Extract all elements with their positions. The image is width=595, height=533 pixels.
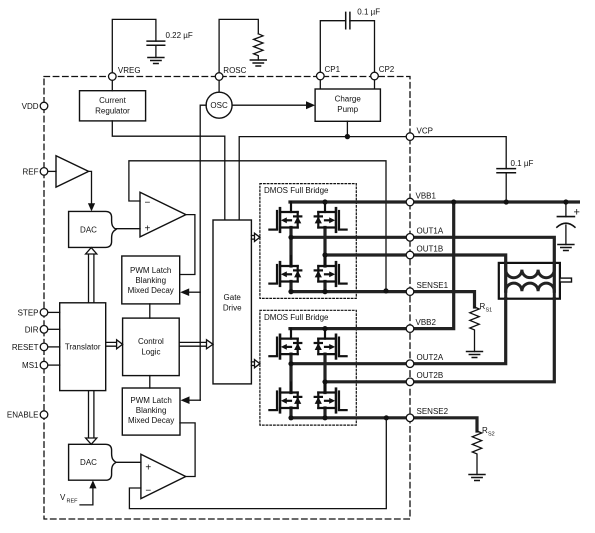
svg-text:DIR: DIR xyxy=(25,325,39,334)
wire buffer to DAC1 xyxy=(89,171,92,204)
svg-text:−: − xyxy=(145,486,151,497)
transistor Q4 (bridge1 low side B) xyxy=(315,256,347,286)
DAC U2 xyxy=(69,444,116,480)
wire control logic to PWM2 xyxy=(149,376,151,388)
svg-text:ENABLE: ENABLE xyxy=(7,411,39,420)
svg-text:OUT1A: OUT1A xyxy=(417,227,444,236)
node OUT1B phase xyxy=(322,252,327,257)
svg-text:VCP: VCP xyxy=(417,126,433,135)
svg-text:0.1 µF: 0.1 µF xyxy=(357,8,380,17)
wire arrow into PWM latch 2 xyxy=(188,399,200,401)
IC boundary dashed box xyxy=(44,77,410,520)
pin SENSE1 xyxy=(406,288,414,296)
wire CP1 into charge pump xyxy=(319,80,321,89)
pin CP1 xyxy=(317,72,325,80)
wire CP1-CP2 pump capacitor xyxy=(320,21,374,72)
svg-text:CP2: CP2 xyxy=(379,65,395,74)
block PWM Latch 2 xyxy=(122,388,180,435)
wire OUT1B xyxy=(325,255,506,291)
node bridge1 sense left xyxy=(288,289,293,294)
svg-text:DAC: DAC xyxy=(80,225,97,234)
svg-text:OUT1B: OUT1B xyxy=(417,244,444,253)
pin CP2 xyxy=(371,72,379,80)
node charge pump junction xyxy=(345,134,350,139)
svg-text:VBB2: VBB2 xyxy=(416,318,437,327)
wire SENSE1 rail xyxy=(291,292,475,307)
DAC U1 xyxy=(69,211,116,247)
pin MS1 xyxy=(48,364,60,366)
wire OSC to charge pump with arrow xyxy=(232,104,307,106)
svg-text:VBB1: VBB1 xyxy=(416,191,437,200)
bus translator to DAC2 xyxy=(89,391,94,438)
pin STEP xyxy=(48,311,60,313)
DMOS full bridge 1 dotted box xyxy=(260,184,356,299)
wire bridge1 left leg xyxy=(289,228,292,292)
inductor winding 2 xyxy=(506,283,555,298)
capacitor 0.22uF xyxy=(147,41,165,45)
node VBB2 tap on VBB1 xyxy=(451,199,456,204)
pin RESET xyxy=(48,346,60,348)
wire DAC1 to comparator1 plus xyxy=(116,228,140,230)
node OUT1A phase xyxy=(288,235,293,240)
node SENSE2 feedback tap xyxy=(384,415,389,420)
wire comparator1 output to PWM1 xyxy=(180,215,195,275)
block Translator xyxy=(60,303,106,391)
transistor Q3 (bridge1 low side A) xyxy=(269,256,301,286)
svg-text:Pump: Pump xyxy=(337,105,358,114)
transistor Q8 (bridge2 low side B) xyxy=(315,383,347,413)
bus arrow translator to control logic xyxy=(106,340,123,349)
svg-text:SENSE1: SENSE1 xyxy=(417,281,449,290)
wire OUT2A xyxy=(291,299,506,364)
node VCP cap on VBB1 xyxy=(504,199,509,204)
node bridge2 sense left xyxy=(288,415,293,420)
svg-text:RESET: RESET xyxy=(12,343,39,352)
wire current regulator to gate drive xyxy=(112,121,225,220)
wire bridge2 left leg xyxy=(289,354,292,418)
svg-text:Translator: Translator xyxy=(65,343,101,352)
svg-text:Blanking: Blanking xyxy=(135,276,166,285)
bus arrow gate drive to bridge 1 xyxy=(251,233,260,241)
pin ROSC xyxy=(215,73,223,81)
node bridge2 drains xyxy=(322,326,327,331)
wire ROSC to resistor xyxy=(219,19,258,72)
block Charge Pump xyxy=(315,89,380,121)
svg-text:DAC: DAC xyxy=(80,458,97,467)
svg-text:Regulator: Regulator xyxy=(95,107,130,116)
svg-text:−: − xyxy=(145,198,151,209)
pin DIR xyxy=(48,328,60,330)
node OUT2B phase xyxy=(322,379,327,384)
inductor winding 1 xyxy=(506,263,555,278)
pin OUT2A xyxy=(406,360,414,368)
node bridge1 sense right xyxy=(322,289,327,294)
wire VBB1 rail xyxy=(290,200,578,203)
oscillator OSC xyxy=(206,92,232,118)
svg-text:DMOS Full Bridge: DMOS Full Bridge xyxy=(264,313,329,322)
bus arrow control logic to gate drive xyxy=(179,340,213,349)
svg-text:Control: Control xyxy=(138,337,164,346)
pin REF xyxy=(40,168,48,176)
svg-text:VDD: VDD xyxy=(22,102,39,111)
wire REF pin to buffer xyxy=(48,170,56,172)
svg-text:STEP: STEP xyxy=(18,308,39,317)
svg-text:+: + xyxy=(145,224,151,235)
op-amp REF buffer xyxy=(56,156,89,187)
pin VREG xyxy=(109,73,117,81)
pin ENABLE xyxy=(40,411,48,419)
motor shaft xyxy=(560,278,572,282)
svg-text:0.22 µF: 0.22 µF xyxy=(166,31,193,40)
svg-text:Charge: Charge xyxy=(335,95,362,104)
pin VDD xyxy=(40,102,48,110)
wire CP2 into charge pump xyxy=(374,80,376,89)
wire charge pump to VCP and gate drive xyxy=(239,121,406,220)
op-amp comparator 2 xyxy=(141,454,186,498)
capacitor bulk electrolytic xyxy=(565,202,567,217)
bus translator to DAC1 xyxy=(89,254,94,303)
wire bridge1 right leg xyxy=(323,228,326,292)
wire OUT1A xyxy=(291,237,554,291)
node bridge2 sense right xyxy=(322,415,327,420)
wire SENSE2 rail xyxy=(291,418,477,431)
svg-text:OUT2B: OUT2B xyxy=(417,371,444,380)
pin OUT2B xyxy=(406,378,414,386)
wire DAC2 to comparator2 plus xyxy=(116,461,141,463)
svg-text:S2: S2 xyxy=(488,432,495,438)
svg-text:Logic: Logic xyxy=(141,348,160,357)
ground (VREG cap) xyxy=(148,58,164,64)
wire VREG to bypass cap xyxy=(112,19,156,72)
wire OUT2B xyxy=(325,299,554,382)
ground (ROSC) xyxy=(250,60,266,66)
transistor Q2 (bridge1 high side B) xyxy=(315,202,347,232)
wire VREF to DAC2 xyxy=(80,487,93,505)
wire ROSC pin to OSC xyxy=(218,81,220,93)
op-amp comparator 1 xyxy=(140,192,186,237)
transistor Q5 (bridge2 high side A) xyxy=(269,329,301,359)
svg-text:VREG: VREG xyxy=(118,66,141,75)
transistor Q6 (bridge2 high side B) xyxy=(315,329,347,359)
pin VBB1 xyxy=(406,198,414,206)
wire bridge2 right leg xyxy=(323,354,326,418)
svg-text:Drive: Drive xyxy=(223,304,242,313)
wire comparator2 output to PWM2 xyxy=(180,423,195,477)
svg-text:Mixed Decay: Mixed Decay xyxy=(128,416,174,425)
node bulk cap on VBB1 xyxy=(563,199,568,204)
svg-text:DMOS Full Bridge: DMOS Full Bridge xyxy=(264,186,329,195)
block Current Regulator xyxy=(80,91,146,121)
svg-text:Gate: Gate xyxy=(224,293,242,302)
svg-text:OUT2A: OUT2A xyxy=(417,353,444,362)
svg-text:Current: Current xyxy=(99,96,126,105)
node OUT2A phase xyxy=(288,361,293,366)
block Control Logic xyxy=(123,318,180,376)
capacitor 0.1uF (charge pump) xyxy=(346,12,350,28)
svg-text:0.1 µF: 0.1 µF xyxy=(511,159,534,168)
pin SENSE2 xyxy=(406,414,414,422)
pin OUT1A xyxy=(406,234,414,242)
ground (RS2) xyxy=(469,475,485,481)
capacitor 0.1uF (VCP) xyxy=(497,169,515,173)
svg-text:S1: S1 xyxy=(486,308,493,314)
bus arrow gate drive to bridge 2 xyxy=(251,360,260,368)
node bridge1 drains xyxy=(322,199,327,204)
pin OUT1B xyxy=(406,251,414,259)
svg-text:REF: REF xyxy=(67,499,79,505)
pin VBB2 xyxy=(406,325,414,333)
svg-text:ROSC: ROSC xyxy=(223,66,246,75)
block PWM Latch 1 xyxy=(122,256,180,304)
block Gate Drive xyxy=(213,220,251,384)
svg-text:Blanking: Blanking xyxy=(136,406,167,415)
svg-text:OSC: OSC xyxy=(210,101,228,110)
resistor ROSC xyxy=(254,34,263,60)
svg-text:V: V xyxy=(60,493,66,502)
wire comparator2 feedback from SENSE2 xyxy=(129,418,386,509)
svg-text:+: + xyxy=(145,463,151,474)
svg-text:+: + xyxy=(574,207,580,219)
DMOS full bridge 2 dotted box xyxy=(260,310,356,425)
ground (RS1) xyxy=(467,352,483,358)
transistor Q1 (bridge1 high side A) xyxy=(269,202,301,232)
svg-text:PWM Latch: PWM Latch xyxy=(130,266,171,275)
node SENSE1 feedback tap xyxy=(383,288,388,293)
svg-text:REF: REF xyxy=(23,167,39,176)
wire VREG pin to current regulator xyxy=(111,81,113,91)
motor load box xyxy=(499,263,560,299)
wire VCP external to cap xyxy=(414,137,506,169)
wire VBB2 rail xyxy=(290,202,454,329)
wire OSC left rail down to PWM latches xyxy=(200,105,206,400)
svg-text:MS1: MS1 xyxy=(22,361,39,370)
svg-text:SENSE2: SENSE2 xyxy=(417,407,449,416)
wire arrow into PWM latch 1 xyxy=(188,291,200,293)
pin VCP xyxy=(406,133,414,141)
svg-text:CP1: CP1 xyxy=(325,65,341,74)
resistor RS2 xyxy=(472,431,481,475)
wire comparator1 feedback from SENSE1 xyxy=(129,161,386,291)
resistor RS1 xyxy=(470,307,479,352)
svg-text:Mixed Decay: Mixed Decay xyxy=(128,286,174,295)
wire PWM1 to control logic xyxy=(149,304,151,318)
svg-text:PWM Latch: PWM Latch xyxy=(130,396,171,405)
transistor Q7 (bridge2 low side A) xyxy=(269,383,301,413)
ground (bulk cap) xyxy=(558,245,574,251)
